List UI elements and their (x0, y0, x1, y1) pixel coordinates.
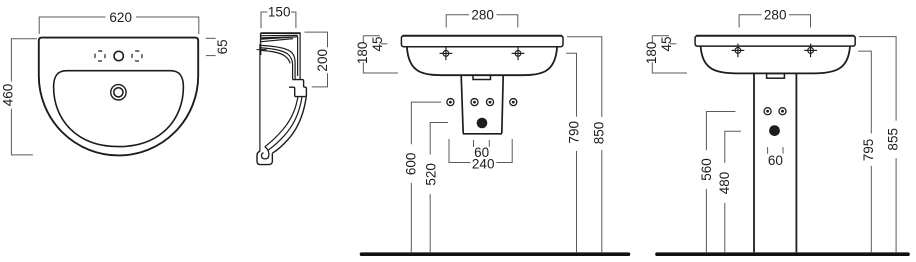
dimension 560 (706, 112, 735, 253)
svg-text:180: 180 (644, 42, 659, 65)
drain dot (769, 125, 780, 136)
svg-text:850: 850 (592, 122, 607, 145)
dimension 65 right (206, 38, 216, 55)
faucet mark left (440, 47, 453, 61)
under-bowl step notch (289, 80, 306, 97)
dimension 240 (449, 139, 512, 163)
wall hole outer right (510, 99, 517, 106)
svg-text:45: 45 (659, 36, 674, 51)
faucet mark left (732, 44, 745, 58)
ground line (657, 252, 908, 256)
basin outer outline (top view) (39, 38, 198, 156)
dimension 790 (566, 53, 576, 252)
dimension 850 (567, 37, 602, 252)
svg-text:180: 180 (355, 42, 370, 65)
pedestal hole right (779, 108, 786, 115)
dimension 280 top (739, 15, 810, 28)
dimension 150 top (261, 12, 296, 28)
trap cover box (461, 76, 503, 134)
svg-text:45: 45 (370, 36, 385, 51)
basin rim bar front (401, 36, 563, 47)
under-bowl S-curve band (265, 97, 307, 154)
dimension 600 (411, 102, 441, 252)
wall hole inner right (486, 99, 493, 106)
rim section top lines (261, 33, 301, 44)
faucet hole centre (114, 51, 123, 60)
pedestal column (754, 74, 796, 253)
faucet hole left (dashed) (95, 51, 105, 61)
svg-text:795: 795 (861, 139, 876, 162)
svg-text:620: 620 (109, 10, 132, 25)
dimension 45 left (363, 36, 387, 44)
svg-text:520: 520 (423, 163, 438, 186)
basin rim bar front (695, 36, 855, 46)
svg-text:280: 280 (471, 7, 494, 22)
dimension 60 ticks (768, 147, 783, 154)
svg-text:460: 460 (1, 84, 16, 107)
wall hole inner left (471, 99, 478, 106)
front edge section lines (298, 33, 301, 80)
overflow window (767, 74, 785, 79)
dimension 180 left (363, 36, 398, 73)
dimension 280 top (446, 15, 518, 28)
faucet hole right (dashed) (132, 51, 142, 61)
ground line (362, 252, 629, 256)
dimension 60 ticks (474, 140, 490, 147)
svg-text:150: 150 (268, 5, 291, 20)
svg-text:60: 60 (768, 153, 783, 168)
svg-text:855: 855 (886, 128, 901, 151)
dimension 480 (725, 131, 741, 252)
drain dot (477, 118, 488, 129)
overflow window (473, 75, 491, 79)
dimension 460 left (11, 39, 37, 155)
pedestal hole left (764, 108, 771, 115)
drip bead at bottom (257, 151, 272, 165)
svg-text:790: 790 (566, 121, 581, 144)
dimension 855 (859, 37, 896, 253)
basin apron front (407, 47, 557, 75)
svg-text:200: 200 (315, 49, 330, 72)
drip bead inner curl (262, 147, 269, 159)
dimension 520 (430, 123, 448, 253)
svg-text:600: 600 (404, 153, 419, 176)
wall hole outer left (447, 99, 454, 106)
faucet mark right (512, 47, 525, 61)
svg-text:560: 560 (699, 158, 714, 181)
faucet mark right (804, 44, 817, 58)
drain outer circle (111, 85, 126, 100)
svg-text:480: 480 (717, 172, 732, 195)
inner basin bowl outline (54, 71, 184, 147)
back wall double line (259, 44, 261, 151)
svg-text:65: 65 (215, 39, 230, 54)
dimension 45 left (652, 36, 676, 44)
svg-text:240: 240 (472, 157, 495, 172)
dimension 200 right (305, 32, 328, 87)
svg-text:280: 280 (764, 7, 787, 22)
mounting hole cross on back wall (257, 44, 267, 55)
dimension 180 left (652, 36, 687, 73)
dimension 620 top (39, 17, 199, 34)
bowl interior section lines (261, 45, 295, 79)
basin apron front (701, 46, 850, 73)
drain inner circle (114, 88, 123, 97)
dimension 795 (858, 51, 871, 252)
